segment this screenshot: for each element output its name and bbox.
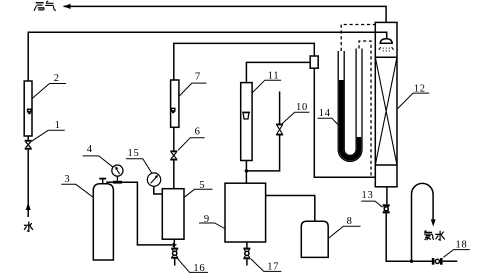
- label pointer 5: [184, 189, 212, 197]
- wire tail-gas header line: [64, 6, 387, 22]
- svg-text:12: 12: [414, 83, 426, 94]
- wire rotameter2 to valve1: [27, 136, 29, 140]
- packed column 12 shell: [375, 22, 397, 186]
- label pointer 6: [178, 138, 205, 151]
- wire junction to valve10 riser: [246, 136, 279, 171]
- svg-text:18: 18: [456, 240, 468, 251]
- water tank 9: [225, 183, 266, 242]
- wire bottoms line to valve18: [386, 213, 432, 261]
- rotameter 7: [171, 80, 179, 127]
- wire gas header line from rotameter 7 to junction box: [174, 43, 314, 80]
- valve 17 (drain, with disc): [243, 248, 250, 260]
- arrow tail-gas (points left): [63, 4, 70, 9]
- label pointer 7: [179, 83, 207, 96]
- valve 18 (sampling, horizontal): [432, 258, 443, 265]
- liquid-seal gooseneck: [412, 183, 434, 261]
- wire rotameter7 to valve6: [173, 127, 175, 150]
- manometer tap to column top (dashed): [341, 25, 375, 52]
- wire water inlet: [27, 150, 29, 217]
- text 水 (water): [24, 222, 33, 232]
- svg-text:14: 14: [319, 108, 331, 119]
- wire column bottom to valve13: [386, 187, 388, 205]
- pressure gauge 15: [147, 173, 162, 194]
- label pointer 3: [61, 184, 93, 197]
- label pointer 18: [443, 250, 470, 258]
- svg-text:1: 1: [55, 120, 61, 131]
- arrow ammonia water outlet: [431, 219, 436, 226]
- wire cylinder outlet: [106, 181, 113, 183]
- valve 13 (with disc): [383, 204, 390, 213]
- svg-text:7: 7: [195, 72, 201, 83]
- wire gas line down to column bottom: [314, 68, 375, 177]
- svg-text:6: 6: [195, 127, 201, 138]
- valve 10: [276, 124, 283, 136]
- svg-text:11: 11: [268, 71, 280, 82]
- junction dot liquid seal: [410, 260, 413, 263]
- label pointer 14: [318, 118, 339, 125]
- column packing X: [375, 57, 397, 165]
- buffer tank 5: [162, 189, 184, 240]
- valve 6: [170, 150, 177, 160]
- svg-text:4: 4: [87, 144, 93, 155]
- svg-text:5: 5: [199, 180, 205, 191]
- svg-text:13: 13: [362, 190, 374, 201]
- column packing bottom divider: [375, 164, 397, 166]
- cylinder valve T (part of 4): [99, 178, 106, 184]
- label pointer 12: [398, 93, 429, 108]
- label pointer 15: [126, 159, 152, 174]
- wire after valve18: [443, 260, 458, 262]
- label pointer 8: [328, 226, 360, 238]
- spray droplets: [379, 47, 394, 51]
- label pointer 13: [361, 201, 382, 207]
- text 尾气 (tail gas): [34, 1, 56, 11]
- label pointer 11: [252, 80, 281, 93]
- pressure gauge 4: [112, 165, 123, 184]
- wire rotameter11 down to junction: [245, 161, 247, 184]
- absorber bottle 8: [301, 221, 328, 257]
- label pointer 4: [83, 156, 113, 167]
- wire valve16 drain stub: [174, 259, 176, 266]
- wire rotameter11 riser to junction box: [246, 62, 310, 82]
- svg-text:8: 8: [347, 216, 353, 227]
- rotameter 2: [24, 81, 32, 136]
- svg-text:3: 3: [64, 174, 70, 185]
- label pointer 16: [177, 258, 208, 272]
- svg-text:9: 9: [204, 214, 210, 225]
- junction arrow at tank5 drain: [173, 243, 178, 247]
- svg-text:2: 2: [54, 73, 60, 84]
- wire cylinder line to tank5 bottom: [122, 182, 172, 245]
- label pointer 2: [32, 84, 66, 99]
- arrow water flow up: [26, 203, 31, 211]
- spray nozzle: [380, 39, 392, 43]
- valve 16 (drain, with disc): [171, 248, 178, 259]
- column top section divider: [375, 56, 397, 58]
- svg-text:16: 16: [193, 263, 205, 274]
- svg-text:17: 17: [267, 262, 279, 273]
- wire valve17 drain stub: [246, 259, 248, 265]
- U-tube manometer 14: [338, 49, 362, 162]
- wire tank9 bottom to valve17: [246, 242, 248, 248]
- svg-text:15: 15: [128, 148, 140, 159]
- rotameter 11: [241, 83, 252, 161]
- junction box (sampling tee): [310, 56, 318, 68]
- label pointer 9: [199, 223, 225, 229]
- label pointer 10: [282, 112, 309, 123]
- valve 1: [25, 140, 32, 150]
- junction dot gas/air mix: [245, 169, 248, 172]
- label pointer 1: [32, 130, 65, 141]
- manometer liquid: [341, 80, 359, 158]
- manometer tap to gas inlet (dashed): [359, 41, 371, 177]
- gas cylinder 3: [93, 184, 113, 260]
- svg-text:10: 10: [296, 102, 308, 113]
- wire tank5 bottom to valve16: [173, 239, 175, 247]
- wire water header line to nozzle: [28, 32, 387, 81]
- text 氨水 (ammonia water): [424, 231, 445, 241]
- label pointer 17: [251, 259, 281, 272]
- wire valve6 to tank5: [173, 161, 175, 189]
- wire tank9 outlet to vessel8: [266, 196, 315, 222]
- wire valve10 open stub: [279, 92, 281, 124]
